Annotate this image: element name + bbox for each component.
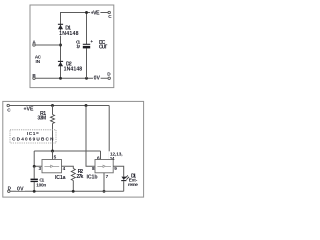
label 1N4148 D2 bbox=[63, 66, 83, 71]
label 1N4148 D1 bbox=[59, 31, 79, 36]
capacitor C1 1u electrolytic bbox=[83, 44, 90, 48]
svg-text:1µ: 1µ bbox=[76, 44, 80, 49]
svg-text:IC1a: IC1a bbox=[55, 175, 66, 181]
wire +VE rail fig2 bbox=[8, 105, 109, 107]
capacitor C1 100n bbox=[31, 179, 38, 182]
wire C1 branch fig1 bbox=[86, 12, 88, 44]
wire pins 12 13 14 bbox=[108, 106, 110, 160]
junction dot pin7 0V bbox=[103, 190, 106, 193]
junction dot C1 top bbox=[85, 11, 88, 14]
svg-text:5: 5 bbox=[54, 154, 57, 159]
wire AC input bbox=[34, 44, 61, 46]
label pins 12,13,14 bbox=[109, 151, 124, 160]
svg-text:OUT: OUT bbox=[99, 45, 108, 51]
label +VE fig1 bbox=[90, 10, 100, 15]
figure 1 border frame bbox=[30, 5, 114, 88]
svg-text:+VE: +VE bbox=[24, 107, 35, 113]
svg-text:+VE: +VE bbox=[91, 11, 101, 17]
svg-text:reme: reme bbox=[128, 182, 138, 187]
junction dot R1 rail bbox=[51, 104, 54, 107]
resistor R1 33M bbox=[51, 106, 55, 152]
junction dot C1 0V fig2 bbox=[33, 190, 36, 193]
svg-text:27k: 27k bbox=[76, 174, 83, 180]
junction dot pin8 rail bbox=[85, 104, 88, 107]
gate IC1b symbol bbox=[97, 165, 111, 167]
svg-text:1N4148: 1N4148 bbox=[64, 67, 83, 73]
svg-text:+: + bbox=[90, 39, 93, 44]
gate IC1a symbol bbox=[44, 165, 59, 167]
label 0V fig1 bbox=[93, 75, 101, 80]
resistor R2 27k bbox=[71, 169, 75, 192]
svg-text:100n: 100n bbox=[36, 183, 46, 188]
terminal D fig1 bbox=[108, 77, 110, 79]
junction dot D2 0V bbox=[59, 77, 62, 80]
node A dot bbox=[59, 44, 62, 47]
wire pin7 to 0V bbox=[103, 173, 105, 192]
junction dot feedback R1 bbox=[51, 150, 54, 153]
terminal C fig1 bbox=[108, 11, 110, 13]
wire C1 branch fig2 bbox=[33, 166, 35, 178]
diode D1 bbox=[58, 24, 63, 29]
junction dot C1 0V bbox=[85, 77, 88, 80]
svg-text:IC1b: IC1b bbox=[87, 174, 98, 180]
figure 2 border frame bbox=[3, 101, 144, 197]
junction dot C1 branch fig2 bbox=[33, 165, 36, 168]
gate IC1b box bbox=[95, 160, 113, 173]
wire pin8 supply drop bbox=[86, 106, 95, 167]
terminal D fig2 bbox=[8, 190, 10, 192]
terminal B bbox=[33, 77, 35, 79]
gate IC1a box bbox=[42, 160, 62, 173]
svg-text:CD4069UBCN: CD4069UBCN bbox=[12, 136, 54, 141]
svg-text:7: 7 bbox=[106, 174, 109, 179]
wire D1 branch bbox=[60, 12, 62, 78]
svg-text:33M: 33M bbox=[37, 115, 46, 121]
junction dot R2 0V bbox=[72, 190, 75, 193]
diode D2 bbox=[58, 61, 63, 66]
LED D1 bbox=[121, 175, 129, 191]
wire 0V rail fig1 bbox=[34, 77, 108, 79]
wire 0V rail fig2 bbox=[8, 190, 124, 192]
terminal C fig2 bbox=[7, 104, 9, 106]
svg-text:1N4148: 1N4148 bbox=[59, 31, 79, 37]
wire feedback left drop bbox=[34, 151, 42, 166]
svg-text:0V: 0V bbox=[94, 75, 101, 81]
svg-text:3: 3 bbox=[39, 166, 42, 171]
wire IC1a out to R2 bbox=[62, 166, 74, 168]
terminal A bbox=[33, 44, 35, 46]
label 0V fig2 bbox=[16, 186, 24, 191]
wire IC1b out to LED bbox=[113, 166, 124, 176]
svg-text:IN: IN bbox=[36, 59, 41, 64]
wire IC1a pin5 bbox=[52, 151, 54, 160]
svg-text:0V: 0V bbox=[17, 186, 24, 192]
wire feedback horizontal bbox=[34, 150, 100, 152]
IC1 type dashed box bbox=[10, 130, 56, 143]
wire IC1b pin6 bbox=[100, 151, 102, 160]
wire +VE rail fig1 bbox=[61, 12, 108, 14]
